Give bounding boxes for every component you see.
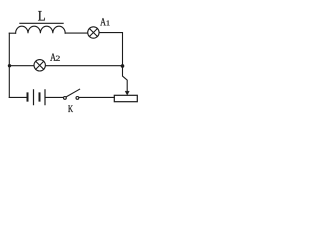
inductor L coil [16, 26, 66, 33]
inductor core line [20, 22, 63, 24]
label L [38, 11, 45, 20]
wire junction to rheostat slider [123, 66, 128, 92]
junction node left [8, 64, 11, 67]
wire switch to rheostat [79, 96, 115, 98]
label A1 [100, 18, 109, 25]
wire middle horizontal [9, 65, 122, 67]
lamp A1 [88, 27, 99, 38]
label A2 [50, 53, 60, 60]
switch K blade [66, 89, 79, 97]
rheostat slider arrowhead [125, 91, 129, 95]
wire left vertical [8, 33, 10, 97]
label K [68, 105, 73, 112]
junction node right [121, 64, 124, 67]
wire top-left lead [9, 32, 15, 34]
lamp A2 [34, 60, 45, 71]
wire lamp A1 to top-right corner and right vertical [99, 33, 122, 65]
wire bottom-left [9, 96, 26, 98]
battery B (two cells) [28, 93, 40, 100]
switch K contacts [64, 97, 67, 100]
wire coil to lamp A1 [65, 32, 88, 34]
rheostat R body [114, 95, 137, 101]
wire battery to switch [45, 96, 63, 98]
